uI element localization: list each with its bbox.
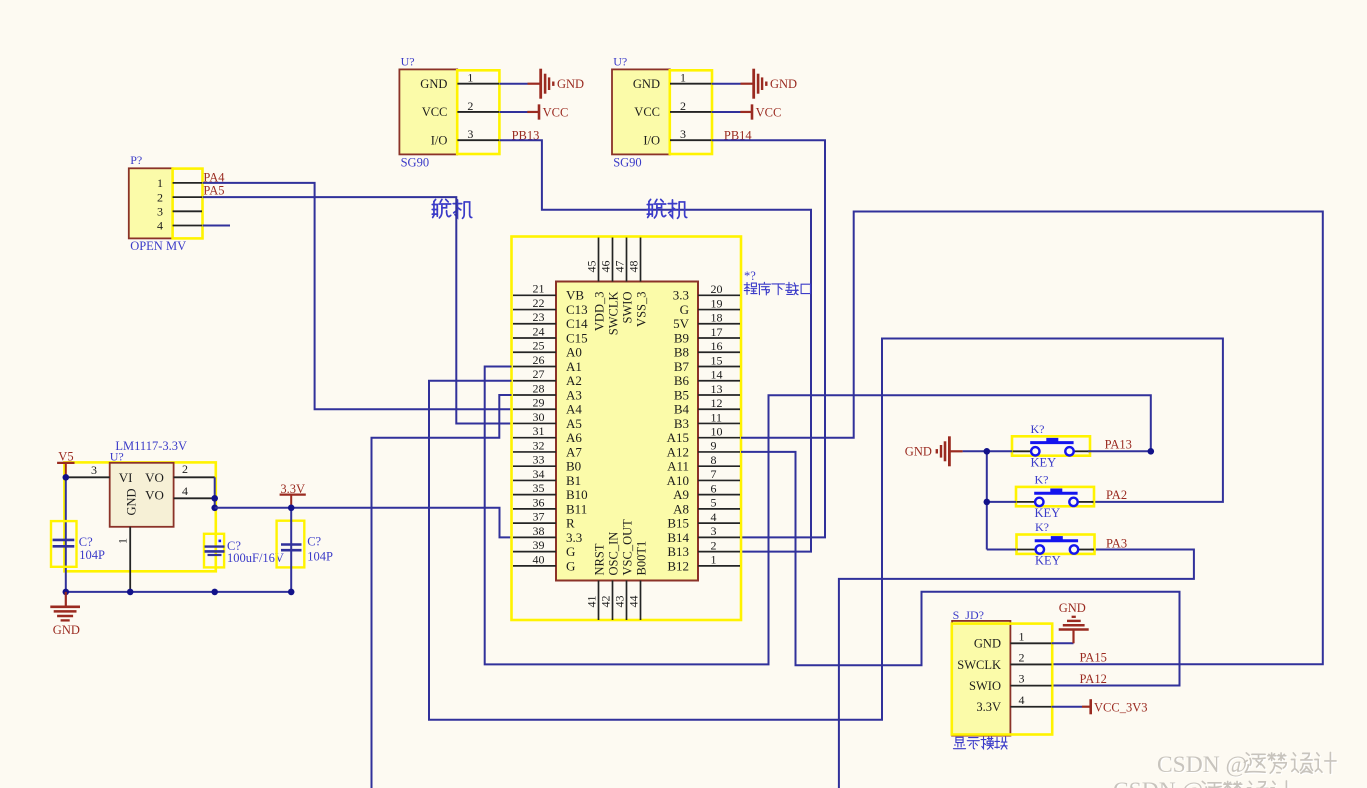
svg-text:KEY: KEY (1035, 506, 1061, 520)
svg-text:1: 1 (680, 71, 686, 85)
svg-text:G: G (680, 302, 689, 317)
svg-text:20: 20 (711, 282, 723, 296)
pin 3 SWIO of display module (1010, 685, 1051, 687)
svg-text:VB: VB (566, 288, 584, 303)
pin 2 VO of LM1117 (174, 476, 215, 478)
pin 39 G (left) (513, 551, 556, 553)
pin 16 B8 (right) (698, 351, 740, 353)
power ground GND (servo1) (528, 83, 541, 85)
wire PB13: servo1 I/O to MCU pin 2 B13 (499, 140, 811, 551)
power ground GND (regulator) (65, 592, 67, 606)
svg-text:VCC: VCC (634, 105, 660, 119)
svg-text:S_JD?: S_JD? (953, 608, 984, 622)
pin 4 VO of LM1117 (174, 497, 215, 499)
pin 2 B13 (right) (698, 551, 740, 553)
svg-text:2: 2 (1019, 650, 1025, 664)
svg-text:18: 18 (711, 311, 723, 325)
svg-text:A5: A5 (566, 416, 582, 431)
pin 3 I/O of SG90 at x=612.0 (670, 139, 712, 141)
MCU chip body (556, 282, 698, 581)
pin 2 VCC of SG90 at x=399.4 (457, 111, 499, 113)
svg-text:1: 1 (157, 176, 163, 190)
svg-text:B10: B10 (566, 487, 588, 502)
svg-text:GND: GND (53, 623, 80, 637)
svg-text:K?: K? (1031, 422, 1045, 436)
svg-text:B5: B5 (674, 387, 689, 402)
svg-text:OSC_IN: OSC_IN (607, 532, 621, 576)
svg-text:VCC: VCC (756, 106, 782, 120)
wire PA5: OPEN MV pin2 to MCU pin 30 A5 (203, 197, 512, 423)
wire PB14: servo2 I/O to MCU pin 3 B14 (712, 140, 825, 537)
capacitor C? 104P (input) (51, 521, 77, 567)
pin 1 of OPEN MV (173, 182, 202, 184)
wire keys common to GND (963, 450, 1012, 452)
pin 14 B6 (right) (698, 380, 740, 382)
svg-text:SWIO: SWIO (969, 679, 1001, 693)
svg-text:8: 8 (711, 453, 717, 467)
svg-text:35: 35 (533, 481, 545, 495)
svg-text:19: 19 (711, 296, 723, 310)
pin 27 A2 (left) (513, 380, 556, 382)
svg-text:K?: K? (1035, 520, 1049, 534)
wire output cap lead (290, 508, 292, 592)
svg-text:CSDN @: CSDN @ (1157, 752, 1247, 778)
svg-text:P?: P? (130, 153, 142, 167)
pin 3 B14 (right) (698, 536, 740, 538)
svg-text:SWIO: SWIO (621, 292, 635, 324)
svg-text:B14: B14 (667, 530, 689, 545)
svg-text:SWCLK: SWCLK (607, 292, 621, 336)
svg-text:25: 25 (533, 339, 545, 353)
svg-text:1: 1 (116, 538, 130, 544)
svg-text:4: 4 (182, 484, 188, 498)
svg-text:B8: B8 (674, 345, 689, 360)
switch K? KEY (PA2) (1016, 487, 1094, 506)
svg-text:VSS_3: VSS_3 (635, 292, 649, 327)
pin 4 of OPEN MV (173, 225, 202, 227)
pin 4 B15 (right) (698, 522, 740, 524)
pin 26 A1 (left) (513, 366, 556, 368)
svg-text:34: 34 (533, 467, 545, 481)
svg-text:3: 3 (680, 127, 686, 141)
svg-text:14: 14 (711, 368, 723, 382)
svg-text:16: 16 (711, 339, 723, 353)
svg-text:PA5: PA5 (203, 184, 224, 198)
capacitor C? 104P (output) (277, 521, 305, 568)
wire servo2 GND pin to GND symbol (712, 83, 741, 85)
svg-text:A6: A6 (566, 430, 582, 445)
svg-text:PA2: PA2 (1106, 488, 1127, 502)
svg-text:GND: GND (905, 444, 932, 458)
label servo1 (Chinese: steering gear) (432, 199, 450, 217)
svg-text:48: 48 (627, 261, 641, 273)
switch K? KEY (PA13) (1012, 436, 1090, 455)
pin 28 A3 (left) (513, 394, 556, 396)
wire A2 to PA2 key net (429, 339, 1223, 720)
svg-text:V5: V5 (58, 449, 73, 463)
svg-text:13: 13 (711, 382, 723, 396)
svg-text:4: 4 (711, 510, 717, 524)
svg-text:5V: 5V (673, 316, 690, 331)
svg-text:A12: A12 (667, 444, 689, 459)
svg-text:G: G (566, 544, 575, 559)
svg-text:VO: VO (145, 487, 164, 502)
svg-text:3: 3 (711, 524, 717, 538)
svg-text:A15: A15 (667, 430, 689, 445)
svg-text:7: 7 (711, 467, 717, 481)
svg-text:33: 33 (533, 453, 545, 467)
svg-text:23: 23 (533, 310, 545, 324)
svg-text:27: 27 (533, 367, 545, 381)
svg-text:A1: A1 (566, 359, 582, 374)
pin 38 3.3 (left) (513, 536, 556, 538)
svg-text:*?: *? (744, 269, 756, 283)
svg-text:10: 10 (711, 425, 723, 439)
svg-text:C15: C15 (566, 330, 588, 345)
svg-text:30: 30 (533, 410, 545, 424)
svg-text:26: 26 (533, 353, 545, 367)
svg-text:15: 15 (711, 353, 723, 367)
wire PA3 key to bottom edge (839, 550, 1194, 788)
svg-text:A9: A9 (673, 487, 689, 502)
pin 3 VI of LM1117 (66, 476, 110, 478)
svg-text:PA15: PA15 (1080, 650, 1107, 664)
svg-text:OPEN MV: OPEN MV (130, 239, 186, 253)
svg-text:GND: GND (633, 77, 660, 91)
svg-text:17: 17 (711, 325, 723, 339)
svg-text:GND: GND (420, 77, 447, 91)
svg-text:C?: C? (307, 535, 321, 549)
pin 34 B1 (left) (513, 479, 556, 481)
svg-text:CSDN @: CSDN @ (1113, 778, 1203, 788)
pin 48 VSS_3 (top) (640, 238, 642, 282)
pin 44 B00T1 (bottom) (640, 581, 642, 621)
pin 6 A9 (right) (698, 494, 740, 496)
svg-text:104P: 104P (307, 549, 333, 563)
svg-text:KEY: KEY (1035, 554, 1061, 568)
power VCC_3V3 (1082, 706, 1091, 708)
pin 32 A7 (left) (513, 451, 556, 453)
svg-text:GND: GND (557, 77, 584, 91)
svg-text:C14: C14 (566, 316, 588, 331)
svg-text:VSC_OUT: VSC_OUT (621, 519, 635, 576)
pin 35 B10 (left) (513, 494, 556, 496)
svg-text:1: 1 (711, 553, 717, 567)
svg-text:4: 4 (1019, 693, 1025, 707)
pin 20 3.3 (right) (698, 294, 740, 296)
svg-text:3: 3 (157, 205, 163, 219)
svg-text:A8: A8 (673, 501, 689, 516)
pin 33 B0 (left) (513, 465, 556, 467)
wire servo2 VCC pin to VCC symbol (712, 111, 741, 113)
pin 36 B11 (left) (513, 508, 556, 510)
svg-text:22: 22 (533, 296, 545, 310)
pin 8 A11 (right) (698, 465, 740, 467)
svg-text:9: 9 (711, 439, 717, 453)
svg-text:38: 38 (533, 524, 545, 538)
pin 23 C14 (left) (513, 323, 556, 325)
pin 2 VCC of SG90 at x=612.0 (670, 111, 712, 113)
svg-text:I/O: I/O (431, 133, 448, 147)
svg-text:46: 46 (599, 261, 613, 273)
svg-text:A10: A10 (667, 473, 689, 488)
svg-text:44: 44 (627, 596, 641, 608)
svg-text:SWCLK: SWCLK (957, 658, 1001, 672)
svg-text:A7: A7 (566, 444, 582, 459)
svg-text:VCC_3V3: VCC_3V3 (1094, 700, 1147, 714)
svg-text:VCC: VCC (543, 106, 569, 120)
junction dot PA13 (1148, 448, 1155, 455)
pin 22 C13 (left) (513, 309, 556, 311)
wire A1 to PA13 key net (485, 367, 1151, 665)
pin 24 C15 (left) (513, 337, 556, 339)
power ground GND (keys) (950, 450, 963, 452)
svg-text:NRST: NRST (593, 543, 607, 575)
pin 19 G (right) (698, 309, 740, 311)
svg-text:5: 5 (711, 496, 717, 510)
svg-text:PA3: PA3 (1106, 537, 1127, 551)
svg-text:B6: B6 (674, 373, 690, 388)
svg-text:24: 24 (533, 324, 545, 338)
wire display 3.3V pin to VCC_3V3 (1052, 706, 1082, 708)
pin 42 OSC_IN (bottom) (612, 581, 614, 621)
svg-text:41: 41 (585, 596, 599, 608)
pin 11 B3 (right) (698, 422, 740, 424)
svg-text:2: 2 (711, 538, 717, 552)
svg-text:104P: 104P (79, 548, 105, 562)
svg-text:VI: VI (119, 470, 133, 485)
pin 31 A6 (left) (513, 437, 556, 439)
pin 46 SWCLK (top) (612, 238, 614, 282)
pin 17 B9 (right) (698, 337, 740, 339)
svg-text:31: 31 (533, 424, 545, 438)
svg-text:VDD_3: VDD_3 (593, 292, 607, 332)
svg-text:42: 42 (599, 596, 613, 608)
svg-text:PA13: PA13 (1105, 438, 1132, 452)
svg-text:3.3: 3.3 (566, 530, 582, 545)
svg-text:A3: A3 (566, 387, 582, 402)
label display module (Chinese) (953, 737, 965, 748)
label servo2 (Chinese: steering gear) (647, 199, 665, 217)
svg-text:GND: GND (1059, 601, 1086, 615)
svg-text:32: 32 (533, 438, 545, 452)
power VCC (servo2) (740, 111, 752, 113)
pin 43 VSC_OUT (bottom) (626, 581, 628, 621)
pin 2 SWCLK of display module (1010, 663, 1051, 665)
wire stub OPEN MV pin4 (203, 225, 231, 227)
svg-text:A4: A4 (566, 402, 582, 417)
wire VO pins junction (214, 477, 216, 508)
svg-text:C13: C13 (566, 302, 588, 317)
wire ground rail of regulator (66, 591, 291, 593)
pin 4 3.3V of display module (1010, 706, 1051, 708)
svg-text:11: 11 (711, 410, 723, 424)
svg-text:C?: C? (79, 535, 93, 549)
svg-text:U?: U? (613, 55, 627, 69)
svg-text:47: 47 (613, 261, 627, 273)
svg-text:3.3: 3.3 (673, 288, 689, 303)
svg-text:PA12: PA12 (1080, 672, 1107, 686)
wire A12 to display PA12 net (741, 452, 1180, 686)
pin 15 B7 (right) (698, 366, 740, 368)
label program download port (Chinese) (744, 283, 757, 295)
svg-text:SG90: SG90 (613, 156, 641, 170)
svg-text:B11: B11 (566, 501, 587, 516)
wire 3.3V rail: LM1117 output to MCU pin 38 (215, 508, 512, 538)
power VCC (servo1) (527, 111, 539, 113)
pin 18 5V (right) (698, 323, 740, 325)
svg-text:VO: VO (145, 470, 164, 485)
pin 40 G (left) (513, 565, 556, 567)
pin 29 A4 (left) (513, 408, 556, 410)
pin 1 GND of SG90 at x=612.0 (670, 83, 712, 85)
pin 9 A12 (right) (698, 451, 740, 453)
svg-text:43: 43 (613, 596, 627, 608)
svg-text:2: 2 (182, 462, 188, 476)
wire key1 to PA13 junction (1088, 450, 1151, 452)
svg-text:A0: A0 (566, 345, 582, 360)
svg-text:1: 1 (467, 71, 473, 85)
wire display GND pin to ground (1052, 642, 1074, 644)
svg-text:B12: B12 (667, 558, 689, 573)
svg-text:G: G (566, 558, 575, 573)
svg-text:3: 3 (1019, 672, 1025, 686)
svg-text:B4: B4 (674, 402, 690, 417)
svg-text:29: 29 (533, 396, 545, 410)
wire servo1 VCC pin to VCC symbol (499, 111, 527, 113)
pin 2 of OPEN MV (173, 196, 202, 198)
svg-text:2: 2 (680, 99, 686, 113)
svg-text:GND: GND (974, 637, 1001, 651)
pin 37 R (left) (513, 522, 556, 524)
pin 1 GND of SG90 at x=399.4 (457, 83, 499, 85)
svg-text:6: 6 (711, 481, 717, 495)
pin 30 A5 (left) (513, 422, 556, 424)
power ground GND (servo2) (741, 83, 754, 85)
svg-text:A2: A2 (566, 373, 582, 388)
wire A3: MCU pin 28 to bottom edge (372, 395, 512, 788)
pin 1 GND of display module (1010, 642, 1051, 644)
svg-text:37: 37 (533, 510, 545, 524)
pin 25 A0 (left) (513, 351, 556, 353)
svg-text:40: 40 (533, 552, 545, 566)
wire V5 input rail down to cap C1 (65, 477, 67, 592)
svg-text:R: R (566, 516, 575, 531)
svg-text:K?: K? (1035, 472, 1049, 486)
svg-text:U?: U? (401, 55, 415, 69)
svg-text:12: 12 (711, 396, 723, 410)
svg-text:B13: B13 (667, 544, 689, 559)
svg-text:B0: B0 (566, 459, 581, 474)
pin 1 GND of LM1117 (129, 527, 131, 592)
svg-text:3: 3 (91, 463, 97, 477)
pin 12 B4 (right) (698, 408, 740, 410)
pin 41 NRST (bottom) (598, 581, 600, 621)
svg-text:4: 4 (157, 219, 163, 233)
pin 3 of OPEN MV (173, 210, 202, 212)
svg-text:B7: B7 (674, 359, 690, 374)
pin 3 I/O of SG90 at x=399.4 (457, 139, 499, 141)
svg-text:21: 21 (533, 282, 545, 296)
svg-text:B15: B15 (667, 516, 689, 531)
svg-text:A11: A11 (667, 459, 689, 474)
svg-text:3: 3 (467, 127, 473, 141)
pin 13 B5 (right) (698, 394, 740, 396)
power ground GND (display) (1072, 630, 1074, 644)
pin 10 A15 (right) (698, 437, 740, 439)
svg-text:2: 2 (467, 99, 473, 113)
svg-text:GND: GND (770, 77, 797, 91)
pin 45 VDD_3 (top) (598, 238, 600, 282)
pin 21 VB (left) (513, 294, 556, 296)
svg-text:1: 1 (1019, 629, 1025, 643)
MCU U? STM32 outline (512, 237, 742, 621)
capacitor C? 100uF/16V (polarized) (204, 534, 224, 568)
wire A15 to display PA15 net (741, 212, 1323, 665)
svg-text:GND: GND (124, 488, 138, 515)
svg-text:B1: B1 (566, 473, 581, 488)
pin 47 SWIO (top) (626, 238, 628, 282)
svg-text:3.3V: 3.3V (976, 700, 1001, 714)
svg-text:LM1117-3.3V: LM1117-3.3V (115, 439, 187, 453)
pin 5 A8 (right) (698, 508, 740, 510)
svg-text:I/O: I/O (643, 133, 660, 147)
svg-text:2: 2 (157, 190, 163, 204)
svg-text:VCC: VCC (422, 105, 448, 119)
svg-text:B00T1: B00T1 (635, 541, 649, 576)
pin 1 B12 (right) (698, 565, 740, 567)
svg-text:39: 39 (533, 538, 545, 552)
svg-text:45: 45 (585, 261, 599, 273)
wire PA4: OPEN MV pin1 to MCU pin 29 A4 (203, 183, 512, 409)
svg-text:B9: B9 (674, 330, 689, 345)
pin 7 A10 (right) (698, 479, 740, 481)
svg-text:B3: B3 (674, 416, 689, 431)
wire servo1 GND pin to GND symbol (499, 83, 527, 85)
svg-text:SG90: SG90 (401, 156, 429, 170)
svg-text:KEY: KEY (1031, 456, 1057, 470)
switch K? KEY (PA3) (1017, 535, 1095, 554)
svg-text:36: 36 (533, 495, 545, 509)
svg-text:28: 28 (533, 381, 545, 395)
